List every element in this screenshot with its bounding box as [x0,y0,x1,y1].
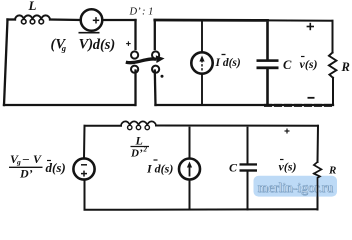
svg-text:R: R [341,60,350,74]
voltage source (Vg-V)d(s) circle [81,9,103,31]
wire: thick mottled segment of secondary bottom rail [264,104,333,107]
wire: bottom circuit left edge upper [83,126,86,159]
label (Vg - V)/D' fraction [9,152,43,181]
svg-text:D’ : 1: D’ : 1 [129,6,154,17]
wire: top circuit left edge [4,20,8,106]
svg-text:V): V) [79,37,94,53]
minus sign bottom right (v(s) polarity, top circuit) [308,97,315,99]
svg-text:v(s): v(s) [279,160,297,174]
svg-text:D’: D’ [130,148,143,160]
wire: bottom circuit top rail right [156,125,318,127]
wire: transformer secondary top lead [154,20,156,49]
polarity dot at transformer secondary bottom [161,75,164,78]
wire: capacitor C branch upper (bottom circuit) [247,127,249,164]
wire: bottom circuit left edge lower [84,180,86,210]
svg-text:merlin-igor.ru: merlin-igor.ru [258,180,334,195]
wire: bottom circuit bottom rail [85,208,318,211]
wire: voltage source to transformer corner [102,19,135,21]
wire: transformer secondary bottom lead [154,71,157,106]
wire: resistor R branch upper (top circuit) [332,21,334,53]
wire: resistor R branch lower (bottom circuit) [317,178,319,210]
svg-text:R: R [328,165,336,177]
voltage source (Vg-V)/D' d(s) circle (bottom circuit) [73,158,94,179]
transformer conversion-ratio arrow [126,55,165,63]
svg-text:C: C [229,161,238,175]
transformer secondary winding turns [152,51,159,72]
label (Vg - V) d(s) [51,33,116,53]
svg-text:C: C [283,58,292,72]
wire: top circuit secondary top rail (thin part) [268,19,333,21]
plus sign above v(s) (bottom circuit) [285,129,290,134]
wire: inductor to voltage source [50,18,81,21]
svg-text:L: L [135,134,143,148]
wire: current source branch lower (bottom circuit) [189,180,191,210]
svg-text:L: L [28,0,37,13]
svg-text:I d(s): I d(s) [215,57,241,69]
current source Id(s) circle (bottom circuit) [179,159,200,180]
svg-text:g: g [16,158,21,167]
inductor L/D'2 (bottom circuit) [121,121,156,129]
wire: resistor R branch lower (top circuit) [332,78,334,105]
svg-text:d(s): d(s) [46,160,66,175]
wire: transformer primary top lead [134,20,136,49]
wire: current source Id(s) branch lower (top circuit) [201,74,203,106]
wire: current source branch upper (bottom circuit) [189,127,191,159]
arrow inside top current source [199,56,204,71]
arrow inside bottom current source [187,162,192,177]
label d(s) after fraction [46,160,66,175]
svg-text:V: V [33,152,42,166]
resistor R zigzag (bottom circuit) [314,162,322,178]
wire: top circuit primary bottom rail [4,104,135,106]
polarity + at transformer primary top [126,41,131,46]
wire: capacitor C branch lower (bottom circuit) [247,172,249,210]
label I d(s) (top current source) [215,55,241,70]
wire: current source Id(s) branch upper (top circuit) [201,21,203,52]
wire: top circuit secondary bottom rail [156,104,334,106]
plus sign inside bottom voltage source [81,171,87,177]
svg-text:I d(s): I d(s) [146,162,173,176]
svg-text:–: – [22,152,29,166]
plus sign inside top voltage source [93,17,99,23]
label v(s) (bottom circuit) [279,160,297,174]
minus sign inside bottom voltage source [81,164,87,166]
wire: top circuit secondary top rail (thick part) [155,19,268,22]
svg-text:D’: D’ [19,167,33,181]
svg-text:2: 2 [143,146,148,154]
resistor R zigzag (top circuit) [329,53,337,78]
capacitor C plates (top circuit) [257,59,279,69]
capacitor C plates (bottom circuit) [240,163,258,171]
wire: resistor R lower lead redrawn over watermark (bottom circuit) [314,174,320,210]
inductor L (top circuit) [15,15,50,24]
watermark merlin-igor.ru [254,176,338,197]
svg-text:g: g [61,43,67,53]
wire: resistor R branch upper (bottom circuit) [317,126,320,162]
wire: bottom circuit top rail left [85,125,122,127]
current source Id(s) circle (top circuit) [191,52,212,73]
transformer primary winding turns [131,51,138,72]
wire: capacitor C branch lower (top circuit) [266,69,269,105]
wire: top circuit top-left segment to inductor [8,18,16,20]
svg-text:v(s): v(s) [300,57,318,71]
label I d(s) (bottom current source) [146,160,173,176]
wire: capacitor C branch upper (top circuit) [266,22,269,60]
wire: transformer primary bottom lead [134,71,136,106]
label v(s) (top circuit) [300,57,318,71]
label L/D'2 fraction (bottom inductor) [130,134,149,160]
plus sign top right (v(s) polarity, top circuit) [307,23,314,30]
svg-text:d(s): d(s) [93,37,116,53]
